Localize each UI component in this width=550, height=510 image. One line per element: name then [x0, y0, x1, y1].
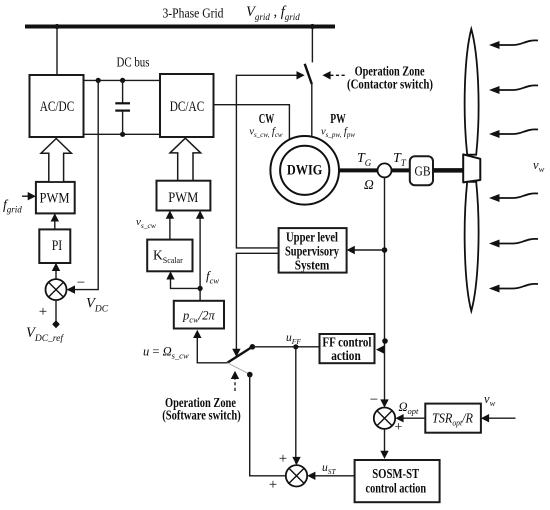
summing junction S1	[46, 279, 67, 300]
box SOSM-ST control action	[355, 460, 440, 502]
capacitor C (DC bus)	[115, 80, 130, 134]
modulator PWM2	[157, 181, 211, 211]
wire DC/AC to DWIG CW	[214, 105, 290, 140]
svg-text:(Contactor switch): (Contactor switch)	[347, 77, 433, 93]
node SW2 lower contact	[247, 372, 253, 378]
gain KScalar	[147, 240, 192, 272]
svg-text:vw: vw	[484, 392, 496, 408]
svg-text:vw: vw	[533, 158, 545, 174]
svg-text:action: action	[331, 348, 361, 363]
svg-text:DC bus: DC bus	[117, 56, 150, 71]
shaft sensor to GB	[391, 168, 409, 172]
svg-text:CW: CW	[259, 112, 275, 127]
summing junction S2	[374, 408, 395, 429]
svg-text:−: −	[370, 392, 378, 408]
node omega to supervisory	[382, 247, 388, 253]
svg-text:Ω: Ω	[364, 177, 374, 192]
box FF control action	[320, 334, 375, 363]
converter AC/DC	[30, 75, 84, 137]
svg-text:uFF: uFF	[286, 332, 301, 346]
controller PI	[39, 229, 70, 263]
svg-text:PI: PI	[52, 238, 63, 254]
svg-text:Ωopt: Ωopt	[399, 400, 420, 416]
block arrow PWM2 to DC/AC	[170, 138, 201, 181]
block pcw/2pi	[174, 301, 224, 329]
svg-text:VDC_ref: VDC_ref	[26, 325, 64, 344]
svg-text:DWIG: DWIG	[287, 162, 323, 178]
svg-text:AC/DC: AC/DC	[40, 99, 75, 115]
switch SW2 open contact	[227, 363, 249, 374]
wire SW1 to DWIG PW	[311, 84, 313, 138]
svg-text:FF control: FF control	[322, 334, 371, 349]
wire fcw branch to KScalar	[171, 273, 201, 288]
svg-text:GB: GB	[415, 165, 431, 180]
wire fcw up to PWM2	[199, 212, 201, 301]
wire sum1 to PI	[55, 265, 57, 280]
node VDC tap	[96, 78, 101, 83]
wind arrow 6	[489, 284, 538, 293]
sensor speed	[378, 163, 392, 177]
svg-text:3-Phase Grid: 3-Phase Grid	[163, 7, 224, 22]
shaft GB to hub	[433, 168, 463, 173]
wind arrow 2	[489, 85, 538, 94]
svg-text:−: −	[77, 275, 85, 291]
wire grid to AC/DC	[56, 27, 58, 76]
svg-text:Vgrid , fgrid: Vgrid , fgrid	[246, 4, 300, 22]
wire omega to supervisory	[349, 249, 385, 251]
dashed arrow SW2	[234, 374, 236, 392]
node grid-left junction	[54, 24, 59, 29]
shaft DWIG to sensor	[338, 168, 378, 172]
wire TSR to sum2	[397, 417, 425, 419]
wire PI to PWM1	[54, 215, 56, 229]
wire supervisory to contactor (up)	[236, 75, 302, 248]
wire uFF line	[252, 346, 319, 348]
svg-text:System: System	[295, 258, 330, 273]
wind arrow 1	[489, 40, 538, 49]
svg-text:DC/AC: DC/AC	[170, 99, 205, 115]
svg-text:PW: PW	[330, 112, 346, 127]
wire supervisory to SW2 (down)	[236, 253, 278, 355]
svg-text:uST: uST	[322, 462, 337, 476]
svg-text:SOSM-ST: SOSM-ST	[372, 467, 420, 482]
svg-text:PWM: PWM	[168, 190, 198, 206]
wire DC bus bottom	[84, 133, 161, 135]
svg-text:(Software switch): (Software switch)	[162, 408, 241, 424]
wire Omega sense down	[384, 177, 386, 406]
svg-text:control action: control action	[366, 481, 427, 496]
wire vw into TSR	[483, 417, 516, 419]
svg-text:+: +	[269, 477, 277, 493]
svg-text:Supervisory: Supervisory	[285, 244, 339, 259]
svg-text:fcw: fcw	[206, 268, 219, 286]
svg-text:pcw/2π: pcw/2π	[182, 309, 215, 325]
turbine hub	[463, 154, 480, 182]
node grid-right junction	[310, 24, 315, 29]
wire VDC_ref input	[55, 300, 57, 321]
node omega to FF	[382, 338, 388, 344]
svg-text:vs_pw, fpw: vs_pw, fpw	[321, 127, 355, 140]
svg-text:vs_cw: vs_cw	[136, 216, 156, 230]
node uFF branch	[293, 344, 298, 349]
wire DC bus top	[84, 79, 161, 81]
block arrow PWM1 to AC/DC	[41, 139, 71, 182]
3-phase grid bus	[25, 25, 335, 29]
box Upper level Supervisory System	[279, 228, 347, 273]
svg-text:+: +	[395, 420, 403, 435]
wind arrow 3	[489, 129, 538, 138]
wire sum3 feedback to SW2	[250, 375, 286, 476]
arrowhead into sum1	[67, 285, 75, 293]
svg-text:+: +	[279, 451, 287, 467]
converter DC/AC	[160, 74, 214, 137]
modulator PWM1	[36, 182, 75, 214]
svg-text:Upper level: Upper level	[286, 230, 338, 245]
wire sum2 to SOSM	[384, 429, 386, 457]
wire SOSM to sum3	[309, 475, 354, 477]
summing junction S3	[286, 465, 307, 486]
gearbox GB	[410, 156, 433, 185]
svg-text:PWM: PWM	[40, 191, 70, 207]
wire u into pcw/2pi	[197, 332, 227, 363]
node cap bottom	[120, 132, 125, 137]
wire fgrid into PWM1	[22, 195, 35, 197]
wire VDC sense down	[68, 80, 98, 289]
wire KScalar to PWM2	[169, 212, 171, 239]
svg-text:TT: TT	[393, 151, 407, 168]
switch SW2 software blade	[227, 347, 252, 363]
svg-text:u = Ωs_cw: u = Ωs_cw	[143, 345, 189, 361]
turbine blade upper	[465, 29, 479, 155]
box TSRopt/R	[425, 404, 481, 433]
wire uFF down to sum3	[295, 347, 297, 464]
svg-text:vs_cw, fcw: vs_cw, fcw	[249, 127, 283, 140]
node cap top	[120, 78, 125, 83]
wind arrow 5	[489, 239, 538, 248]
switch SW1 blade	[305, 64, 312, 84]
generator DWIG	[270, 136, 339, 205]
svg-text:fgrid: fgrid	[3, 197, 22, 215]
node fcw branch	[198, 286, 203, 291]
dashed arrow SW1	[325, 74, 345, 76]
switch SW1 contactor: wire from grid	[311, 27, 313, 63]
terminal VDC_ref diamond	[52, 320, 60, 328]
node SW2 upper contact	[250, 344, 256, 350]
svg-text:+: +	[39, 304, 47, 320]
wire omega to FF control	[378, 349, 385, 351]
turbine blade lower	[465, 182, 479, 311]
svg-text:TG: TG	[357, 151, 372, 168]
svg-text:VDC: VDC	[86, 296, 109, 315]
wind arrow 4	[489, 193, 538, 202]
